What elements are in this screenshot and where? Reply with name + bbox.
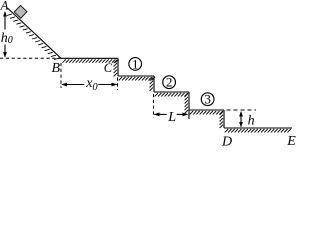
incline hatching	[7, 14, 59, 60]
svg-text:C: C	[104, 61, 113, 75]
drop3 hatching	[185, 94, 188, 114]
svg-text:A: A	[0, 0, 9, 13]
svg-text:E: E	[286, 134, 296, 146]
svg-text:1: 1	[132, 56, 139, 71]
svg-text:3: 3	[204, 92, 211, 107]
incline slope AB	[8, 8, 62, 58]
step2 surface	[118, 75, 154, 77]
step2 hatching	[119, 77, 155, 80]
drop1 face	[117, 58, 119, 76]
step4 surface	[189, 109, 224, 111]
x0 span arrow	[61, 83, 118, 87]
dashed extension below C	[117, 78, 119, 91]
h height arrow	[239, 111, 243, 128]
h0 height arrow	[3, 11, 7, 58]
drop1 hatching	[114, 60, 117, 77]
drop3 face	[188, 92, 190, 119]
block on incline	[14, 5, 27, 18]
dashed extension below drop2	[153, 94, 155, 118]
dashed baseline at B level	[0, 57, 60, 59]
step4 hatching	[190, 111, 223, 114]
circled 2	[163, 75, 176, 90]
L label	[167, 109, 177, 125]
svg-text:L: L	[167, 110, 176, 125]
ground line D-E	[224, 127, 292, 129]
h0 label	[0, 30, 14, 47]
step3 hatching	[155, 93, 188, 96]
svg-text:h: h	[248, 113, 255, 128]
drop2 hatching	[150, 78, 153, 91]
drop2 face	[153, 76, 155, 92]
drop4 hatching	[220, 112, 223, 129]
x0 label	[84, 76, 98, 93]
circled 3	[201, 92, 214, 107]
step1 hatching	[63, 59, 119, 62]
ground hatching	[225, 129, 291, 132]
svg-text:D: D	[221, 134, 232, 146]
svg-text:2: 2	[166, 75, 173, 90]
drop4 face	[223, 110, 225, 128]
circled 1	[129, 56, 142, 71]
L span arrow	[154, 113, 189, 117]
step3 surface	[154, 91, 189, 93]
dashed h reference line	[227, 109, 257, 111]
svg-text:B: B	[52, 61, 61, 76]
step1 surface B-C	[60, 57, 119, 59]
dashed extension below B	[60, 63, 62, 88]
